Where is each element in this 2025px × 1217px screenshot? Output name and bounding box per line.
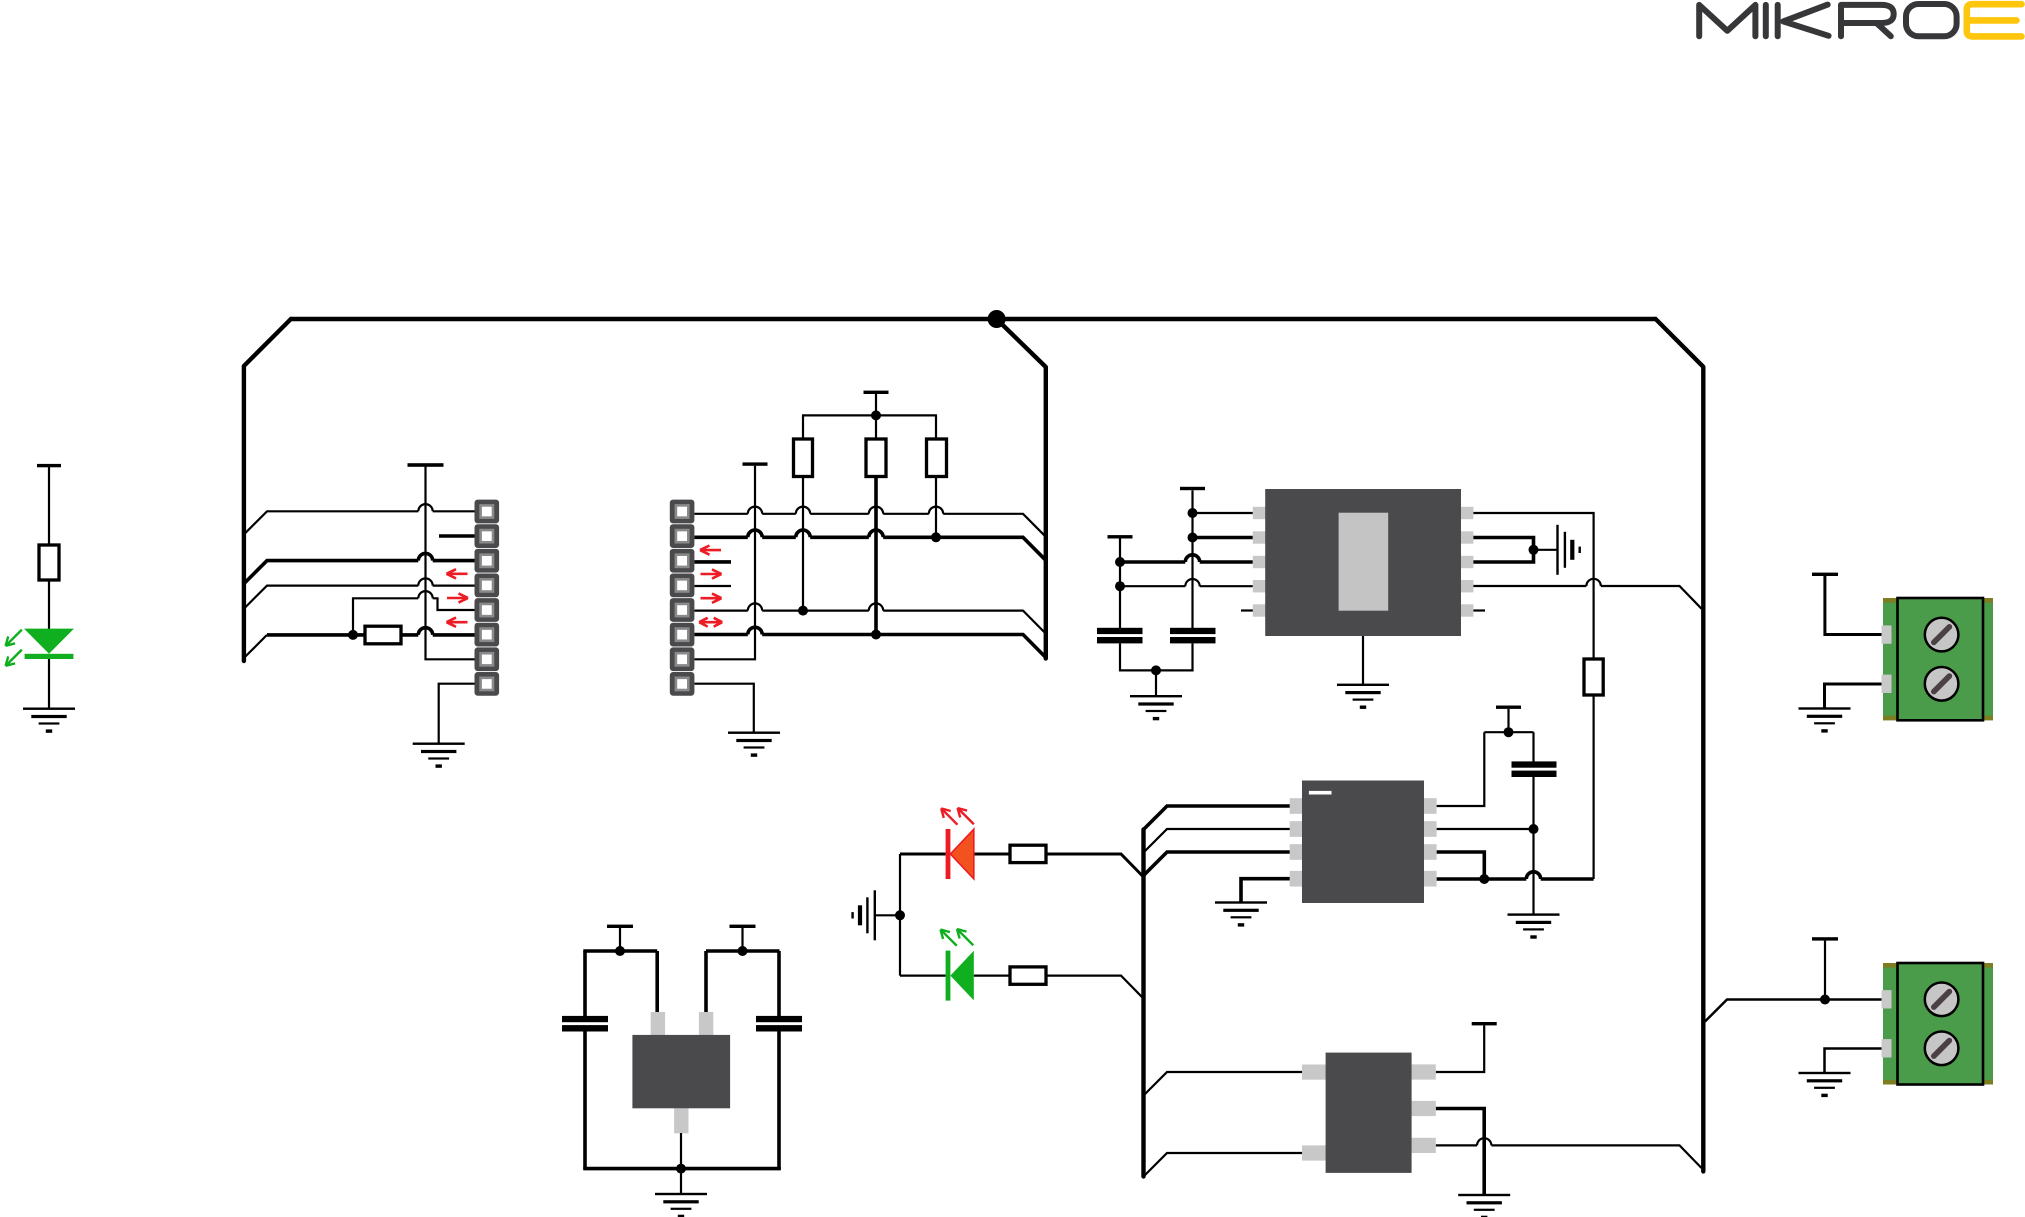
wire J2 pin8 to ground <box>694 684 753 732</box>
wire C5 to ground <box>1532 777 1534 914</box>
power tap (J1 rail) <box>408 463 444 467</box>
wire U4 pin2R to ground <box>1436 1109 1484 1195</box>
wire C3 to ground rail <box>583 1031 587 1169</box>
wire U4 pin2L to bus <box>1144 1153 1303 1177</box>
resistor R5 <box>927 439 947 477</box>
wire U1 pin1R / R8 net <box>1473 513 1593 660</box>
ground (U2 right) <box>1508 913 1560 915</box>
ground (U2 pin4L) <box>1215 901 1267 903</box>
MIKROE logo <box>1699 4 2021 36</box>
power tap (U1 supply B) <box>1180 487 1205 490</box>
wire J2 pin3 stub <box>694 560 731 564</box>
wire J2 pull rail <box>694 466 755 660</box>
wire J1 pin4 to bus <box>244 578 475 608</box>
capacitor C3 <box>562 1016 608 1022</box>
bus: main supply rail top <box>291 317 1656 321</box>
ground (reg) <box>655 1193 707 1195</box>
power tap (J2 rail) <box>743 462 768 465</box>
wire tap to C1 <box>1115 539 1125 630</box>
LED D3 (green) <box>941 929 974 1001</box>
power tap (TB1) <box>1812 573 1838 576</box>
regulator U3 <box>632 1012 730 1133</box>
wire to chassis ground <box>1534 549 1557 551</box>
wire <box>48 659 50 708</box>
wire chassis to node <box>875 914 900 916</box>
header J1 <box>475 500 500 696</box>
IC U4 <box>1302 1053 1436 1173</box>
terminal block TB1 <box>1882 598 1994 720</box>
resistor R6 <box>1010 845 1046 862</box>
ground (U1) <box>1337 684 1389 686</box>
wire caps to ground <box>1119 643 1194 695</box>
power tap (pull-ups) <box>864 391 889 394</box>
wire R4 leg <box>874 477 878 635</box>
resistor R2 <box>365 626 401 644</box>
wire U2 pin2L to bus <box>1144 829 1290 853</box>
wire U1 GND pin <box>1362 630 1364 684</box>
wire green LED row <box>900 976 1144 999</box>
wire U2 pin3L to bus <box>1144 852 1290 876</box>
bus junction <box>988 310 1006 328</box>
wire J2 pin5 to bus <box>694 603 1045 633</box>
wire TB2 pin2 <box>1825 1049 1884 1073</box>
wire J2 pin4 stub <box>694 585 731 587</box>
header J2 <box>670 500 695 696</box>
ground (TB1) <box>1799 707 1851 709</box>
chassis ground (U1) <box>1556 525 1558 575</box>
wire TB1 pin2 <box>1825 684 1884 708</box>
power tap (TB2) <box>1812 937 1838 940</box>
wire U2 supply node <box>1484 709 1533 762</box>
bus: left branch <box>244 319 291 661</box>
bus: LED / lower-IC branch <box>1141 830 1145 1177</box>
power tap (U1 supply A) <box>1108 535 1133 538</box>
direction arrows (J2) <box>699 546 722 627</box>
wire C4 to ground rail <box>777 1031 781 1169</box>
wire U1 pin2 <box>1193 536 1253 540</box>
wire J2 pin2 to bus <box>694 530 1045 560</box>
wire pull-up top rail <box>802 394 937 440</box>
wire U2 pin4R to R8 <box>1437 872 1594 884</box>
ground (U4) <box>1458 1194 1510 1196</box>
power tap (U4) <box>1472 1022 1497 1025</box>
wire J1 pin1 to bus <box>244 504 475 534</box>
ground (J2) <box>728 732 780 734</box>
wire reg output loop <box>706 928 780 1017</box>
junction <box>931 532 941 542</box>
wire J1 pin3 to bus <box>244 553 475 583</box>
wire U2 pin4L to ground <box>1241 879 1290 902</box>
bus: right branch <box>1656 319 1704 1171</box>
power tap (U2) <box>1496 706 1521 709</box>
wire J2 pin6 to bus <box>694 627 1045 657</box>
direction arrows (J1) <box>447 569 469 627</box>
wire U1 pin4R to bus <box>1473 579 1701 609</box>
wire U2 pin2R <box>1437 824 1539 834</box>
wire J1 pin5 jumper <box>353 591 475 635</box>
U1 pin5L stub <box>1241 609 1253 611</box>
wire U2 pin1R <box>1437 732 1485 806</box>
capacitor C4 <box>756 1016 802 1022</box>
terminal block TB2 <box>1882 963 1994 1085</box>
resistor R7 <box>1010 967 1046 984</box>
wire J1 pin2 stub <box>439 534 475 538</box>
resistor R3 <box>794 439 813 477</box>
ground <box>23 708 75 710</box>
wire tap to C2 <box>1188 490 1198 629</box>
wire R5 leg <box>935 477 937 538</box>
wire U4 pin3R to bus <box>1436 1138 1702 1168</box>
wire J1 pin6 to bus via R2 <box>244 628 475 658</box>
wire reg ground <box>583 1133 781 1193</box>
ground (J1) <box>413 743 465 745</box>
wire U1 pin2R/pin3R loop <box>1473 538 1538 563</box>
junction <box>871 630 881 640</box>
power tap (reg input) <box>607 925 633 928</box>
wire J2 pin1 to bus <box>694 507 1045 537</box>
wire R3 leg <box>802 477 804 611</box>
wire U2 pin1L to bus <box>1144 806 1290 830</box>
chassis ground (LEDs) <box>874 890 876 940</box>
wire red LED row <box>900 854 1144 877</box>
resistor R8 <box>1584 659 1603 695</box>
bus: middle branch <box>997 319 1046 659</box>
wire TB1 pin1 <box>1825 576 1883 635</box>
wire U1 pin4 <box>1120 579 1253 588</box>
IC U2 <box>1290 781 1437 904</box>
wire U4 pin1L to bus <box>1144 1072 1303 1096</box>
wire U1 pin3 <box>1120 555 1253 565</box>
U1 pin5R stub <box>1473 609 1485 611</box>
wire <box>48 580 50 629</box>
wire J1 pull rail <box>426 466 475 659</box>
power tap (reg output) <box>730 925 756 928</box>
ground (U1 caps) <box>1130 695 1182 697</box>
junction <box>798 606 808 616</box>
wire TB2 pin1 <box>1705 941 1883 1022</box>
wire R8 to U2 pin4R <box>1592 695 1594 879</box>
resistor R4 <box>866 439 886 477</box>
wire LED common node <box>895 854 905 976</box>
ground (TB2) <box>1799 1072 1851 1074</box>
wire reg input loop <box>583 928 657 1017</box>
LED D2 (red) <box>941 808 974 879</box>
junction <box>348 630 358 640</box>
LED D1 (green) <box>6 629 74 666</box>
wire U1 pin1 <box>1193 512 1253 514</box>
wire <box>48 466 50 546</box>
capacitor C1 <box>1097 628 1143 634</box>
power tap (left LED supply) <box>37 464 61 467</box>
wire U4 pin1R <box>1436 1025 1484 1072</box>
wire U2 pin3R <box>1437 852 1485 877</box>
capacitor C2 <box>1170 628 1216 634</box>
wire J1 pin8 to ground <box>439 684 475 743</box>
IC U1 <box>1253 489 1474 636</box>
capacitor C5 <box>1512 761 1557 767</box>
resistor R1 <box>39 545 59 580</box>
